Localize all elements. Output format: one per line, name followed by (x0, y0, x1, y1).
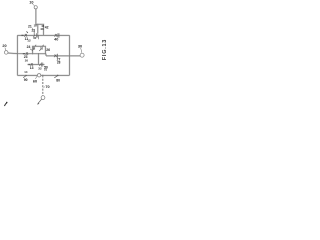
junction dot top feed / gate lead (37, 24, 38, 25)
lead arrow on bottom branch right (54, 75, 58, 78)
transistor Q13 on H1 right (54, 33, 59, 37)
wire halo (soft scan underlay) (8, 9, 80, 96)
junction dot H2/connector (38, 53, 39, 54)
terminal 30 circle (right) (80, 53, 84, 57)
lead line label R21 (32, 28, 33, 30)
transistor Q24 on H2 right (54, 54, 58, 58)
wire middle branch H2 right (46, 55, 80, 57)
junction dot arc right foot (45, 53, 46, 54)
wire bypass arc over H2 (33, 46, 46, 53)
wire bottom branch (17, 74, 37, 76)
lead arrow on bottom branch left (23, 75, 26, 78)
svg-text:43: 43 (40, 27, 44, 31)
transistor Q21 on H2 left (23, 52, 28, 55)
tick near 24 (30, 49, 31, 50)
lead line label 60 (36, 76, 37, 79)
arrow from terminal 70 (37, 99, 42, 105)
svg-text:30: 30 (78, 45, 82, 49)
terminal 70 circle (bottom) (41, 96, 45, 100)
wire middle branch H2 jog (45, 54, 47, 56)
lead line label 10 (32, 4, 34, 6)
svg-text:28: 28 (57, 61, 61, 65)
svg-text:14: 14 (24, 70, 28, 74)
junction dot arc left foot (32, 53, 33, 54)
transistor Q32 on H3 right (39, 63, 43, 67)
lead line label 20 (4, 48, 7, 51)
lead line label 30 (81, 48, 82, 53)
terminal 60 circle (inline bottom) (37, 74, 40, 77)
svg-text:12: 12 (27, 39, 31, 43)
svg-text:32: 32 (38, 66, 42, 70)
transistor Q11 on H1 left (21, 34, 27, 37)
junction dot bottom lead (42, 75, 44, 77)
svg-text:40: 40 (54, 38, 58, 42)
junction dot left rail / H2 (17, 53, 19, 55)
wire left rail (16, 35, 18, 75)
wire middle branch H2 left (8, 52, 46, 55)
wire top branch H1 (17, 34, 69, 36)
wire bottom branch right part (41, 74, 70, 76)
wire right rail (69, 35, 71, 75)
svg-text:31: 31 (33, 36, 37, 40)
terminal 20 circle (left) (4, 51, 8, 55)
svg-text:FIG.13: FIG.13 (102, 39, 107, 60)
lead arrow label 70 (44, 86, 45, 88)
wire middle branch H3 (28, 64, 45, 66)
svg-text:80: 80 (56, 79, 60, 83)
svg-text:16: 16 (25, 59, 29, 63)
svg-text:13: 13 (30, 66, 34, 70)
svg-text:18: 18 (34, 23, 38, 27)
svg-text:24: 24 (27, 45, 31, 49)
junction dot right rail / H2b (69, 55, 71, 57)
terminal 10 circle (top) (34, 6, 37, 9)
wire bottom terminal lead (dashed) (42, 75, 44, 96)
transistor Q22 on arc left (32, 45, 36, 51)
svg-text:26: 26 (46, 48, 50, 52)
svg-text:22: 22 (32, 28, 36, 32)
mark far bottom-left (4, 103, 7, 106)
wire top terminal lead down (36, 9, 44, 36)
transistor Q31 on H3 left (28, 63, 33, 66)
svg-text:70: 70 (45, 85, 49, 89)
svg-text:20: 20 (2, 44, 6, 48)
svg-text:51: 51 (44, 67, 48, 71)
wire gate lead from top feed (37, 24, 39, 33)
gate tick Q11 (27, 31, 28, 33)
svg-text:42: 42 (45, 26, 49, 30)
wire H2-H3 connector (38, 54, 40, 65)
transistor Q12 on H1 mid (33, 30, 38, 38)
svg-text:60: 60 (33, 80, 37, 84)
transistor Q23 on arc right (39, 45, 44, 51)
svg-text:90: 90 (24, 78, 28, 82)
